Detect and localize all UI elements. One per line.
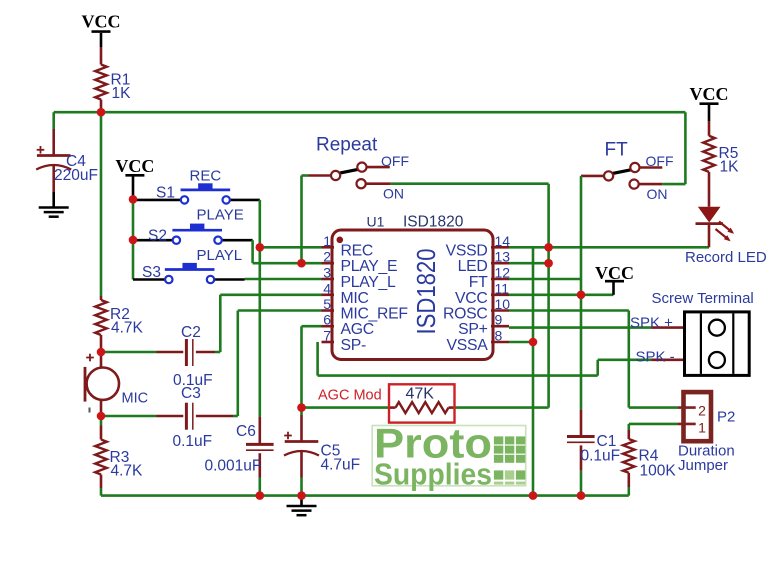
svg-text:0.001uF: 0.001uF — [205, 458, 262, 475]
svg-text:PLAY_L: PLAY_L — [341, 274, 397, 291]
svg-text:220uF: 220uF — [54, 167, 98, 184]
svg-text:1K: 1K — [720, 159, 740, 176]
svg-text:SP+: SP+ — [458, 321, 487, 338]
svg-text:U1: U1 — [367, 214, 385, 230]
svg-text:14: 14 — [495, 233, 511, 249]
svg-text:9: 9 — [495, 312, 503, 328]
svg-text:0.1uF: 0.1uF — [173, 433, 213, 450]
svg-text:2: 2 — [698, 403, 706, 419]
svg-text:OFF: OFF — [646, 153, 674, 169]
svg-text:12: 12 — [495, 265, 511, 281]
svg-text:ON: ON — [383, 186, 404, 202]
svg-text:PLAYE: PLAYE — [197, 207, 244, 224]
svg-text:Screw Terminal: Screw Terminal — [652, 290, 754, 307]
svg-text:4.7K: 4.7K — [111, 463, 144, 480]
svg-text:MIC_REF: MIC_REF — [341, 306, 409, 323]
svg-text:1: 1 — [698, 420, 706, 436]
svg-text:PLAY_E: PLAY_E — [341, 258, 398, 275]
svg-text:P2: P2 — [717, 409, 735, 426]
svg-text:C3: C3 — [181, 385, 201, 402]
svg-text:VSSD: VSSD — [446, 242, 488, 259]
svg-text:Supplies: Supplies — [374, 457, 492, 492]
svg-text:VCC: VCC — [690, 84, 729, 104]
svg-text:S2: S2 — [148, 228, 167, 245]
svg-text:ISD1820: ISD1820 — [403, 214, 464, 231]
svg-text:3: 3 — [323, 265, 331, 281]
svg-text:VSSA: VSSA — [447, 337, 489, 354]
svg-text:4.7K: 4.7K — [111, 320, 144, 337]
svg-text:4: 4 — [323, 280, 331, 296]
svg-text:SP-: SP- — [341, 337, 366, 354]
svg-text:SPK -: SPK - — [636, 349, 675, 366]
svg-text:C6: C6 — [236, 423, 256, 440]
svg-text:REC: REC — [341, 242, 373, 259]
svg-text:1: 1 — [323, 233, 331, 249]
svg-text:REC: REC — [190, 168, 222, 185]
svg-text:VCC: VCC — [455, 290, 487, 307]
svg-text:MIC: MIC — [122, 391, 149, 407]
svg-text:5: 5 — [323, 296, 331, 312]
svg-text:LED: LED — [458, 258, 488, 275]
svg-text:ON: ON — [647, 186, 668, 202]
svg-text:AGC Mod: AGC Mod — [318, 388, 382, 404]
svg-text:6: 6 — [323, 312, 331, 328]
svg-text:4.7uF: 4.7uF — [321, 457, 361, 474]
svg-text:11: 11 — [495, 280, 510, 296]
svg-text:VCC: VCC — [115, 156, 154, 176]
svg-text:Repeat: Repeat — [316, 135, 378, 156]
svg-text:AGC: AGC — [341, 321, 374, 338]
svg-text:SPK +: SPK + — [630, 315, 673, 332]
svg-text:VCC: VCC — [82, 12, 121, 32]
svg-text:10: 10 — [495, 296, 511, 312]
svg-text:FT: FT — [605, 140, 629, 161]
svg-text:47K: 47K — [406, 386, 435, 403]
svg-text:Jumper: Jumper — [678, 457, 728, 474]
svg-text:S3: S3 — [142, 264, 161, 281]
svg-text:8: 8 — [495, 328, 503, 344]
svg-text:7: 7 — [323, 328, 331, 344]
svg-text:0.1uF: 0.1uF — [581, 448, 621, 465]
svg-text:1K: 1K — [112, 85, 132, 102]
svg-text:ISD1820: ISD1820 — [411, 249, 441, 335]
svg-text:2: 2 — [323, 249, 331, 265]
svg-text:C2: C2 — [181, 324, 201, 341]
svg-text:ROSC: ROSC — [443, 306, 487, 323]
svg-text:S1: S1 — [156, 185, 175, 202]
svg-text:OFF: OFF — [381, 153, 409, 169]
svg-text:MIC: MIC — [341, 290, 369, 307]
svg-text:100K: 100K — [640, 463, 677, 480]
svg-text:13: 13 — [495, 249, 511, 265]
svg-text:PLAYL: PLAYL — [197, 247, 243, 264]
svg-text:FT: FT — [469, 274, 488, 291]
svg-text:Record LED: Record LED — [685, 249, 767, 266]
